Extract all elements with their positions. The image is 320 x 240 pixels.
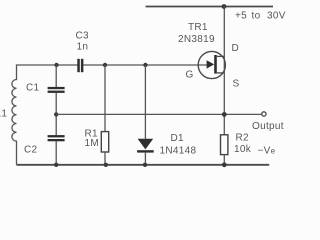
svg-text:C3: C3 [76,30,90,41]
capacitor C2 [48,135,65,141]
svg-text:+5: +5 [235,11,247,22]
node R1 bottom junction [104,163,108,167]
node supply junction [222,4,227,9]
svg-text:C1: C1 [26,82,40,93]
node source row junction [222,112,227,117]
node D1 top junction [143,63,147,67]
node R2 bottom junction [222,162,227,167]
svg-text:30V: 30V [267,11,286,22]
svg-text:R2: R2 [236,132,250,143]
svg-text:10k: 10k [234,144,252,155]
svg-text:to: to [252,11,261,22]
wire C1 to C2 [55,93,57,135]
wire gate horizontal left of C3 [16,64,78,66]
resistor R1 [101,65,108,165]
svg-text:Output: Output [252,121,284,132]
svg-text:D1: D1 [171,133,185,144]
svg-text:G: G [186,69,194,80]
transistor TR1 [198,51,225,78]
node source tap junction [54,112,58,116]
svg-text:1M: 1M [85,138,100,149]
svg-text:−Ve: −Ve [258,145,276,156]
resistor R2 [221,135,228,165]
output terminal [262,112,266,116]
svg-text:D: D [232,43,240,54]
svg-text:1N4148: 1N4148 [160,145,197,156]
wire drain/source vertical [223,7,225,135]
inductor L1 [12,65,17,165]
wire C1 branch upper [55,65,57,87]
svg-text:C2: C2 [24,144,38,155]
wire top supply rail [146,6,274,8]
node C2 bottom junction [54,163,58,167]
wire output row [56,113,261,115]
svg-text:1n: 1n [77,41,89,52]
wire gate horizontal right of C3 [83,64,208,66]
capacitor C3 [77,59,83,72]
svg-text:S: S [233,78,240,89]
wire bottom rail [17,164,270,166]
node R1 top junction [103,63,107,67]
svg-text:TR1: TR1 [188,22,208,33]
svg-text:L1: L1 [0,109,7,120]
capacitor C1 [48,87,65,93]
node C1 top junction [54,63,58,67]
wire C2 bottom [55,141,57,165]
diode D1 [137,65,154,165]
node D1 bottom junction [143,163,147,167]
svg-text:2N3819: 2N3819 [178,34,215,45]
